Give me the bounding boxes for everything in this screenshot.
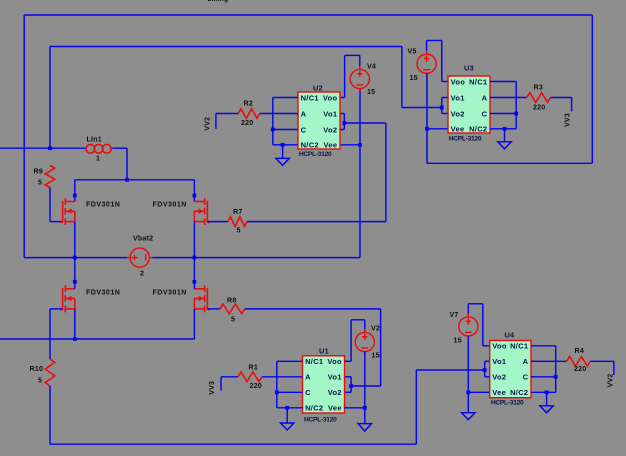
- wire vertical up to U2 output: [385, 123, 387, 222]
- svg-text:Vee: Vee: [324, 141, 338, 150]
- svg-text:V4: V4: [367, 63, 376, 71]
- wire mid rail left of Vbat2: [24, 257, 127, 259]
- node U2 output bracket: [343, 114, 345, 130]
- svg-text:VV3: VV3: [565, 113, 572, 127]
- resistor R4: [567, 357, 591, 367]
- wire top outer left vertical: [23, 15, 25, 258]
- wire M3 drain from mid rail: [74, 258, 76, 289]
- svg-text:C: C: [523, 373, 529, 382]
- wire V2 minus to ground: [364, 352, 366, 424]
- svg-text:C: C: [482, 109, 488, 118]
- svg-text:U2: U2: [313, 84, 323, 93]
- wire up to U4 output: [415, 370, 417, 444]
- wire R2 to U2 pin A: [260, 113, 298, 115]
- resistor R8: [220, 304, 245, 314]
- svg-text:Voo: Voo: [451, 77, 466, 86]
- wire V4 plus loop to U2 Voo: [359, 55, 361, 66]
- svg-text:A: A: [523, 357, 529, 366]
- wire V5 minus down to bottom loop: [426, 73, 428, 163]
- op-amp U3 HCPL-3120: [448, 76, 490, 133]
- svg-text:Vo1: Vo1: [328, 373, 342, 382]
- wire bottom of right loop: [427, 162, 592, 164]
- svg-text:Vo2: Vo2: [451, 109, 465, 118]
- wire V5 plus loop to U3 Voo: [426, 41, 428, 51]
- wire M4 gate to R8: [207, 308, 220, 310]
- wire U3 right bracket: [515, 82, 517, 129]
- wire R1 to U1 pin A: [262, 376, 303, 378]
- svg-text:U3: U3: [464, 64, 474, 73]
- svg-text:HCPL-3120: HCPL-3120: [449, 136, 482, 143]
- svg-text:R3: R3: [534, 84, 543, 92]
- wire U1 input bracket: [276, 361, 278, 408]
- ground under U2: [276, 145, 289, 166]
- svg-text:Vee: Vee: [328, 404, 342, 413]
- svg-text:N/C2: N/C2: [301, 141, 319, 150]
- svg-text:FDV301N: FDV301N: [86, 289, 120, 297]
- inductor Lin1: [86, 144, 113, 153]
- wire U2 input bracket: [272, 98, 274, 145]
- svg-text:R1: R1: [249, 364, 258, 372]
- svg-text:220: 220: [533, 104, 545, 112]
- wire M4 drain from mid rail: [193, 258, 195, 289]
- wire R10 bottom leg: [49, 386, 51, 444]
- wire V4 minus down to mid rail: [359, 89, 361, 258]
- svg-text:Vo1: Vo1: [323, 109, 337, 118]
- resistor R7: [228, 217, 247, 227]
- wire R8 to U1 output drop: [245, 308, 381, 310]
- svg-text:Vbat2: Vbat2: [133, 235, 153, 243]
- svg-text:N/C1: N/C1: [301, 93, 319, 102]
- svg-text:220: 220: [574, 365, 586, 373]
- svg-text:2: 2: [140, 270, 144, 278]
- ground under U3: [498, 129, 511, 149]
- wire M3 source to bottom rail: [74, 309, 76, 339]
- voltage source V7: [459, 314, 478, 340]
- transistor M1 FDV301N top-left: [60, 198, 74, 225]
- svg-text:C: C: [305, 388, 311, 397]
- wire R4 to VV2 stub: [590, 360, 614, 362]
- svg-text:15: 15: [410, 74, 418, 82]
- op-amp U4 HCPL-3120: [490, 341, 531, 398]
- svg-text:HCPL-3120: HCPL-3120: [304, 417, 337, 424]
- svg-text:U1: U1: [319, 347, 329, 356]
- ground under U1: [281, 408, 294, 430]
- op-amp U2 HCPL-3120: [298, 92, 340, 149]
- resistor R9: [45, 166, 55, 188]
- wire U2 output horizontal: [344, 122, 386, 124]
- resistor R3: [527, 93, 551, 103]
- ground under U4: [540, 392, 553, 413]
- wire drain drop M2: [193, 180, 195, 202]
- node U1 output bracket: [350, 377, 352, 393]
- svg-text:R7: R7: [233, 208, 242, 216]
- svg-text:FDV301N: FDV301N: [153, 289, 187, 297]
- wire H-bridge top rail: [75, 179, 195, 181]
- wire drain drop M1: [74, 180, 76, 202]
- voltage source V4: [350, 66, 369, 92]
- wire V7 minus to ground: [467, 336, 469, 413]
- wire VV3 stub at R1: [221, 376, 238, 378]
- resistor R10: [45, 359, 55, 386]
- wire U2 Vee stub: [340, 144, 360, 146]
- svg-text:220: 220: [241, 119, 253, 127]
- svg-text:15: 15: [372, 352, 380, 360]
- svg-text:1: 1: [96, 155, 100, 163]
- wire into U3 Vb bracket: [402, 107, 442, 109]
- svg-text:LIn1: LIn1: [87, 136, 102, 144]
- voltage source V2: [355, 329, 374, 355]
- wire V7 plus loop to U4 Voo: [467, 304, 469, 314]
- wire M3 gate to R10: [50, 308, 63, 310]
- svg-text:N/C2: N/C2: [305, 404, 323, 413]
- svg-text:HCPL-3120: HCPL-3120: [299, 151, 332, 158]
- svg-text:15: 15: [454, 337, 462, 345]
- svg-text:15: 15: [367, 88, 375, 96]
- svg-text:U4: U4: [505, 331, 516, 340]
- svg-text:R4: R4: [575, 347, 584, 355]
- svg-text:N/C1: N/C1: [510, 342, 528, 351]
- svg-text:Vo2: Vo2: [492, 373, 506, 382]
- svg-text:V5: V5: [408, 48, 417, 56]
- svg-text:VV3: VV3: [209, 381, 216, 395]
- svg-text:N/C2: N/C2: [469, 125, 487, 134]
- wire U3 Vee stub: [427, 128, 448, 130]
- svg-text:V7: V7: [450, 311, 459, 319]
- svg-text:Voo: Voo: [492, 342, 507, 351]
- svg-text:R10: R10: [30, 365, 44, 373]
- svg-text:Vo1: Vo1: [451, 93, 465, 102]
- svg-text:A: A: [482, 93, 488, 102]
- wire R7 to U2 output drop: [247, 221, 386, 223]
- wire inductor right lead: [112, 147, 127, 149]
- svg-text:5: 5: [38, 179, 42, 187]
- wire R9 bottom to M1 gate: [49, 188, 51, 222]
- wire U4 Vee stub: [468, 391, 489, 393]
- svg-text:Vee: Vee: [451, 125, 465, 134]
- ground under V2: [358, 424, 371, 432]
- wire bottom rail: [0, 338, 194, 340]
- svg-text:Voo: Voo: [323, 93, 338, 102]
- svg-text:N/C1: N/C1: [305, 357, 323, 366]
- wire top outer horizontal: [24, 14, 592, 16]
- ground under V7: [462, 413, 475, 420]
- wire VV2 stub at R2: [216, 113, 238, 115]
- transistor M4 FDV301N bottom-right: [194, 285, 209, 312]
- svg-text:Lining: Lining: [208, 0, 229, 3]
- resistor R1: [238, 372, 262, 382]
- svg-text:Vo2: Vo2: [323, 125, 337, 134]
- svg-text:5: 5: [237, 227, 241, 235]
- svg-text:R2: R2: [244, 100, 253, 108]
- resistor R2: [238, 109, 260, 119]
- transistor M2 FDV301N top-right: [194, 198, 209, 225]
- svg-text:Vo1: Vo1: [492, 357, 506, 366]
- svg-text:VV2: VV2: [608, 374, 615, 388]
- wire M2 source to mid rail: [193, 222, 195, 258]
- wire R3 to VV3 stub: [551, 97, 572, 99]
- wire U1 Vee stub: [345, 407, 365, 409]
- wire right border vertical: [591, 15, 593, 163]
- wire U3 pin A to R3: [490, 97, 527, 99]
- wire left input to inductor: [0, 147, 86, 149]
- wire U4 right bracket: [555, 346, 557, 393]
- wire M4 source to bottom rail: [193, 309, 195, 339]
- svg-text:Vee: Vee: [492, 388, 506, 397]
- svg-text:A: A: [305, 373, 311, 382]
- svg-text:N/C1: N/C1: [469, 77, 487, 86]
- svg-text:VV2: VV2: [205, 117, 212, 131]
- wire vertical drop x=402: [401, 47, 403, 108]
- svg-text:R8: R8: [227, 297, 236, 305]
- svg-text:R9: R9: [34, 168, 43, 176]
- wire U1 Voo loop to V2: [345, 360, 352, 362]
- svg-text:FDV301N: FDV301N: [86, 201, 120, 209]
- node U3 output bracket: [441, 98, 443, 114]
- wire second horizontal from U3 output: [50, 46, 402, 48]
- svg-text:N/C2: N/C2: [510, 388, 528, 397]
- op-amp U1 HCPL-3120: [303, 356, 345, 413]
- wire M2 gate to R7: [207, 221, 228, 223]
- svg-text:220: 220: [250, 382, 262, 390]
- svg-text:FDV301N: FDV301N: [153, 201, 187, 209]
- svg-text:Vo2: Vo2: [328, 388, 342, 397]
- voltage source Vbat2: [127, 248, 153, 267]
- wire U4 pin A to R4: [531, 360, 567, 362]
- svg-text:A: A: [301, 109, 307, 118]
- svg-text:5: 5: [231, 316, 235, 324]
- wire second left vertical to R9: [49, 47, 51, 149]
- transistor M3 FDV301N bottom-left: [60, 285, 74, 312]
- wire drop from inductor to bridge top rail: [126, 148, 128, 180]
- wire mid rail right of Vbat2: [152, 257, 360, 259]
- svg-text:C: C: [301, 125, 307, 134]
- voltage source V5: [417, 51, 436, 77]
- svg-text:5: 5: [38, 377, 42, 385]
- svg-text:Voo: Voo: [327, 357, 342, 366]
- svg-text:HCPL-3120: HCPL-3120: [491, 400, 524, 407]
- wire M1 source to mid rail: [74, 222, 76, 258]
- node U4 input bracket: [484, 361, 486, 377]
- svg-text:V2: V2: [371, 325, 380, 333]
